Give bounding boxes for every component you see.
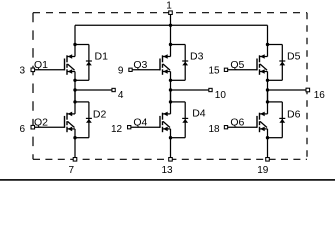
svg-text:D5: D5 <box>287 51 301 63</box>
node leg2 output junction <box>169 88 172 91</box>
wire Q5 gate lead <box>228 69 257 71</box>
pin 6 pad (gate Q2) <box>31 125 35 129</box>
wire D3 branch <box>171 45 186 81</box>
node leg3 cell2 bottom junction <box>266 136 269 139</box>
svg-text:D1: D1 <box>95 51 109 63</box>
wire D6 branch <box>268 102 283 138</box>
diode D1 <box>86 45 92 81</box>
pin 12 pad (gate Q4) <box>128 126 131 129</box>
svg-text:9: 9 <box>118 66 124 77</box>
svg-text:D2: D2 <box>93 108 107 120</box>
wire output stub leg3 <box>268 89 308 91</box>
svg-text:18: 18 <box>208 124 220 135</box>
node leg1 output junction <box>73 88 76 91</box>
transistor Q4 <box>160 112 171 133</box>
diode D3 <box>182 45 188 81</box>
wire Q4 gate lead <box>131 126 160 128</box>
pin 16 pad <box>306 88 310 92</box>
svg-text:16: 16 <box>314 90 326 101</box>
svg-text:15: 15 <box>208 66 220 77</box>
page rule (bottom) <box>0 179 335 181</box>
svg-text:12: 12 <box>111 124 123 135</box>
node leg2 cell2 bottom junction <box>169 136 172 139</box>
wire leg1 cell1 verticals <box>74 25 76 102</box>
svg-text:Q1: Q1 <box>34 59 48 71</box>
node leg1 cell1 bottom junction <box>73 79 76 82</box>
node leg2 cell2 top junction <box>169 100 172 103</box>
diode D2 <box>86 102 92 138</box>
node leg3 cell1 bottom junction <box>266 79 269 82</box>
wire D1 branch <box>75 45 89 81</box>
svg-text:7: 7 <box>69 165 75 176</box>
pin 7 pad <box>73 158 77 162</box>
wire output stub leg1 <box>75 89 114 91</box>
svg-text:D6: D6 <box>287 108 301 120</box>
node leg3 cell2 top junction <box>266 100 269 103</box>
wire D4 branch <box>171 102 186 138</box>
wire D2 branch <box>75 102 89 138</box>
svg-text:13: 13 <box>161 165 173 176</box>
transistor Q6 <box>257 112 268 133</box>
svg-text:Q4: Q4 <box>133 117 147 129</box>
diode D5 <box>279 45 285 81</box>
wire pin1 lead <box>170 13 172 26</box>
transistor Q3 <box>160 54 171 75</box>
wire leg3 cell1 verticals <box>267 25 269 102</box>
pin 15 pad (gate Q5) <box>224 68 227 71</box>
wire top rail <box>75 24 268 26</box>
svg-text:6: 6 <box>19 124 25 135</box>
pin 3 pad (gate Q1) <box>31 68 35 72</box>
svg-text:D4: D4 <box>192 107 206 119</box>
node leg3 cell1 top junction <box>266 43 269 46</box>
diode D4 <box>182 102 188 138</box>
svg-text:Q5: Q5 <box>230 59 244 71</box>
svg-text:Q6: Q6 <box>230 117 244 129</box>
package outline (dashed) <box>33 13 307 160</box>
pin 10 pad <box>209 88 212 91</box>
node leg1 cell2 bottom junction <box>73 136 76 139</box>
pin 19 pad <box>266 158 270 162</box>
wire leg2 cell2 verticals <box>170 90 172 159</box>
svg-text:Q3: Q3 <box>133 59 147 71</box>
svg-text:Q2: Q2 <box>34 117 48 129</box>
wire leg3 cell2 verticals <box>267 90 269 159</box>
node leg2 cell1 bottom junction <box>169 79 172 82</box>
svg-text:1: 1 <box>166 0 172 11</box>
diode D6 <box>279 102 285 138</box>
wire Q6 gate lead <box>228 126 257 128</box>
svg-text:10: 10 <box>215 90 227 101</box>
node rail junction <box>169 24 172 27</box>
pin 13 pad <box>169 158 173 162</box>
node leg3 output junction <box>266 88 269 91</box>
node leg2 cell1 top junction <box>169 43 172 46</box>
wire output stub leg2 <box>171 89 211 91</box>
pin 18 pad (gate Q6) <box>224 126 227 129</box>
wire Q2 gate lead <box>35 126 65 128</box>
svg-text:D3: D3 <box>190 51 204 63</box>
node leg1 cell1 top junction <box>73 43 76 46</box>
svg-text:4: 4 <box>118 90 124 101</box>
transistor Q1 <box>65 54 76 75</box>
wire Q3 gate lead <box>132 69 160 71</box>
transistor Q5 <box>257 54 268 75</box>
wire leg1 cell2 verticals <box>74 90 76 159</box>
transistor Q2 <box>65 112 76 133</box>
wire D5 branch <box>268 45 283 81</box>
node leg1 cell2 top junction <box>73 100 76 103</box>
svg-text:3: 3 <box>19 66 25 77</box>
pin 9 pad (gate Q3) <box>129 68 132 71</box>
pin 1 pad <box>169 11 173 15</box>
wire leg2 cell1 verticals <box>170 25 172 102</box>
wire Q1 gate lead <box>35 69 65 71</box>
svg-text:19: 19 <box>257 165 269 176</box>
pin 4 pad <box>112 88 115 91</box>
